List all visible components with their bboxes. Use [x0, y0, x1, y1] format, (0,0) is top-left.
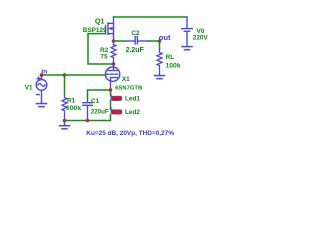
svg-text:220uF: 220uF	[91, 108, 109, 115]
svg-text:C1: C1	[91, 98, 100, 105]
resistor RL	[157, 49, 162, 75]
resistor R1	[62, 94, 67, 121]
junction dot C1 bottom	[86, 119, 90, 123]
resistor R2	[111, 41, 116, 64]
wire bottom rail	[65, 115, 111, 121]
wire out down	[159, 41, 161, 49]
battery V0	[182, 17, 193, 46]
junction dot R1 top	[63, 73, 67, 77]
wire gate feedback	[88, 34, 114, 64]
svg-text:Ku=25 dB, 20Vp, THD=0,27%: Ku=25 dB, 20Vp, THD=0,27%	[86, 130, 174, 137]
svg-text:Led1: Led1	[125, 95, 140, 102]
svg-text:Q1: Q1	[95, 16, 105, 25]
ground under V0	[182, 47, 192, 50]
svg-text:V1: V1	[25, 85, 33, 92]
wire C1 top	[88, 90, 111, 99]
junction dot R1 bottom	[63, 119, 67, 123]
wire in rail	[42, 74, 106, 76]
junction dot Q1 source	[112, 39, 116, 43]
svg-text:RL: RL	[166, 54, 175, 61]
wire source to C2	[114, 40, 126, 42]
wire R1 column	[64, 75, 66, 94]
svg-text:100k: 100k	[66, 105, 81, 112]
transistor Q1 BSP129	[102, 17, 114, 41]
svg-text:75: 75	[100, 54, 108, 61]
wire cathode to Led1	[110, 90, 112, 95]
svg-text:2.2uF: 2.2uF	[126, 47, 144, 54]
diode Led2	[111, 108, 122, 114]
capacitor C1	[83, 99, 92, 121]
junction dot anode	[112, 62, 116, 66]
Q1 bulk arrow	[109, 27, 113, 31]
ground under R1	[60, 121, 70, 129]
diode Led1	[111, 94, 122, 100]
svg-text:220V: 220V	[193, 35, 209, 42]
wire C2 to out	[149, 40, 160, 42]
svg-text:100k: 100k	[166, 63, 181, 70]
junction dot cathode	[109, 88, 113, 92]
capacitor C2	[125, 36, 149, 44]
wire Led1 to Led2	[110, 100, 112, 109]
voltage source V1	[36, 75, 47, 103]
ground under RL	[155, 76, 165, 79]
ground under V1	[37, 104, 47, 107]
junction dot out	[158, 39, 162, 43]
svg-text:Led2: Led2	[125, 109, 140, 116]
wire top rail	[114, 16, 187, 18]
junction dot V1 top	[40, 73, 44, 77]
svg-text:X1: X1	[122, 76, 130, 83]
triode X1	[105, 64, 119, 88]
svg-text:C2: C2	[131, 30, 140, 37]
svg-text:6SN7GTB: 6SN7GTB	[115, 85, 142, 91]
svg-text:R1: R1	[67, 97, 76, 104]
